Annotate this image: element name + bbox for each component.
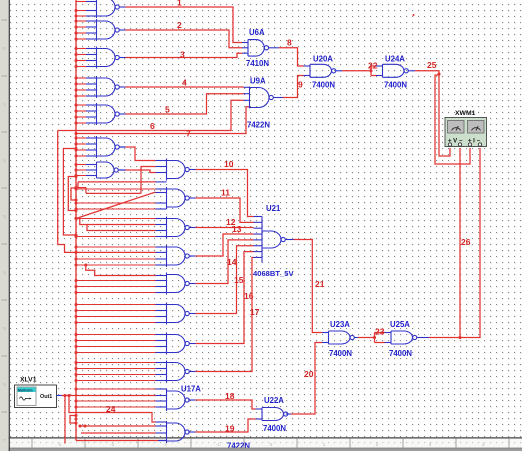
svg-text:7422N: 7422N <box>247 121 270 130</box>
wire SC11 inputs / net 24 <box>69 396 156 423</box>
node stray <box>413 14 415 16</box>
wire SC11 input hook <box>70 416 76 424</box>
svg-text:3: 3 <box>180 50 185 60</box>
bottom scrollbar strip <box>0 448 522 451</box>
svg-text:U22A: U22A <box>264 396 284 405</box>
nand gate G2 <box>97 21 116 39</box>
junction net 23 <box>373 336 376 339</box>
svg-text:3: 3 <box>429 442 432 447</box>
svg-text:11: 11 <box>221 188 230 198</box>
svg-text:13: 13 <box>232 224 242 234</box>
nand gate U22A (7400N) <box>262 408 283 421</box>
nand gate SC8 <box>167 363 186 381</box>
nand gate G3 <box>97 49 116 67</box>
wire net 2 <box>119 29 125 31</box>
wire net 22 <box>336 70 342 72</box>
wire net 20 <box>286 413 291 415</box>
wire G1 inputs <box>76 1 86 3</box>
svg-text:2: 2 <box>3 158 6 163</box>
svg-text:U6A: U6A <box>249 28 265 37</box>
wire net 5 <box>119 113 125 115</box>
junction net 26 <box>458 336 461 339</box>
wire feedback bracket B4 <box>71 188 76 200</box>
wire SC4 inputs <box>76 246 156 248</box>
svg-text:U9A: U9A <box>250 77 266 86</box>
svg-text:7: 7 <box>186 129 191 139</box>
svg-text:1: 1 <box>177 0 182 8</box>
svg-text:22: 22 <box>368 61 378 71</box>
wire G2 inputs <box>76 20 86 22</box>
svg-text:Out1: Out1 <box>40 394 52 400</box>
junction net 25 <box>437 72 440 75</box>
left ruler strip <box>0 0 9 451</box>
wire net 21 <box>285 239 293 241</box>
wire net 4 <box>119 86 125 88</box>
instrument XLV1 <box>15 385 57 408</box>
wire U23A input stubs <box>322 342 329 344</box>
svg-text:4: 4 <box>182 78 187 88</box>
wire net 3 <box>119 57 125 59</box>
wire down-stub at x=65 <box>64 396 66 444</box>
horizontal ruler <box>10 438 522 448</box>
nand gate SC4 <box>167 247 186 265</box>
nand gate U6A (7410N) <box>248 40 264 57</box>
wire net 23 <box>354 337 358 339</box>
wire U6A input stubs <box>242 42 248 44</box>
svg-text:U23A: U23A <box>330 320 350 329</box>
wire XLV1 output <box>57 395 63 397</box>
nand gate U23A (7400N) <box>329 331 351 344</box>
svg-text:1: 1 <box>323 442 326 447</box>
wire net 8 <box>269 47 279 49</box>
svg-text:XLV1: XLV1 <box>20 377 37 384</box>
svg-text:4068BT_5V: 4068BT_5V <box>253 269 294 278</box>
wire input bus <box>75 0 77 441</box>
wire net 7 <box>76 107 250 134</box>
svg-text:U20A: U20A <box>313 55 333 64</box>
wire SC7 inputs <box>76 334 156 336</box>
svg-text:8: 8 <box>287 38 292 48</box>
nand gate G5 <box>97 105 116 123</box>
svg-text:-4: -4 <box>57 442 62 447</box>
wire staircase S1 <box>77 182 79 188</box>
svg-text:7410N: 7410N <box>246 59 269 68</box>
wire net 15 <box>189 313 195 315</box>
svg-text:U24A: U24A <box>385 55 405 64</box>
wire net 6 <box>58 100 244 130</box>
wire feedback bracket B3 <box>68 177 76 211</box>
nand gate G4 <box>97 78 116 96</box>
instrument XWM1 wattmeter <box>445 118 487 147</box>
wire G6 inputs <box>76 137 86 139</box>
wire net 18 <box>188 399 195 401</box>
nand gate U9A (7422N) <box>250 88 270 108</box>
nand gate U24A (7400N) <box>383 64 405 77</box>
svg-text:U17A: U17A <box>181 385 201 394</box>
wire net 10 <box>189 169 195 171</box>
wire feedback bracket B2 <box>63 149 76 236</box>
svg-text:26: 26 <box>461 237 471 247</box>
svg-text:7400N: 7400N <box>312 81 335 90</box>
wire G4 inputs <box>76 77 86 79</box>
svg-text:7: 7 <box>3 438 6 443</box>
wire net 12 <box>189 227 195 229</box>
svg-text:23: 23 <box>375 327 385 337</box>
wire SC6 inputs <box>76 304 156 306</box>
wire net 19 <box>188 431 195 433</box>
svg-text:9: 9 <box>298 80 303 90</box>
wire bus tail into bottom gate <box>76 440 158 442</box>
svg-text:0: 0 <box>270 442 273 447</box>
wire G3 inputs <box>76 48 86 50</box>
wire net 14 <box>189 283 195 285</box>
wire net 25 <box>408 70 415 72</box>
nand gate SC2 <box>167 189 186 207</box>
svg-text:21: 21 <box>315 279 325 289</box>
svg-text:2: 2 <box>177 20 182 30</box>
svg-text:15: 15 <box>234 275 244 285</box>
svg-text:19: 19 <box>225 424 235 434</box>
wire net 26 <box>417 337 429 339</box>
nand gate SC3 <box>167 219 186 237</box>
svg-text:7400N: 7400N <box>389 349 412 358</box>
wire SC5 inputs <box>86 265 156 276</box>
wire net 17 <box>189 371 195 373</box>
svg-text:14: 14 <box>227 257 237 267</box>
nand gate G7 <box>97 162 115 178</box>
svg-text:-1: -1 <box>216 442 221 447</box>
svg-text:6: 6 <box>3 382 6 387</box>
svg-text:20: 20 <box>304 369 314 379</box>
svg-text:Multisim: Multisim <box>18 388 33 392</box>
svg-text:U25A: U25A <box>390 320 410 329</box>
nand gate SC7 <box>167 335 186 353</box>
wire net 11 <box>189 197 195 199</box>
svg-text:17: 17 <box>250 307 260 317</box>
wire net 9 <box>273 97 283 99</box>
wire U21 input stubs <box>254 216 263 218</box>
svg-text:25: 25 <box>427 60 437 70</box>
wire SC3 inputs <box>76 218 156 220</box>
svg-text:1: 1 <box>3 102 6 107</box>
svg-text:U21: U21 <box>266 204 281 213</box>
svg-text:24: 24 <box>106 404 116 414</box>
svg-text:5: 5 <box>165 105 170 115</box>
nand gate SC6 <box>167 305 186 323</box>
svg-text:0: 0 <box>3 46 6 51</box>
svg-text:5: 5 <box>3 326 6 331</box>
nand gate SC5 <box>167 275 186 293</box>
svg-text:3: 3 <box>3 214 6 219</box>
wire SC2 inputs <box>76 188 156 190</box>
wire G7 inputs <box>76 164 86 166</box>
wire net 16 <box>189 343 195 345</box>
wire net 1 <box>119 6 125 8</box>
svg-text:2: 2 <box>376 442 379 447</box>
wire net 13 <box>189 255 195 257</box>
junction net 22 <box>369 69 372 72</box>
svg-text:XWM1: XWM1 <box>455 110 476 117</box>
nand gate U21 (4068BT_5V) <box>262 231 281 248</box>
svg-text:18: 18 <box>225 391 235 401</box>
svg-text:-3: -3 <box>110 442 115 447</box>
svg-text:10: 10 <box>224 159 234 169</box>
wire SC1 inputs <box>119 146 125 148</box>
nand gate SC1 <box>167 161 186 179</box>
nand gate G1 <box>97 0 116 16</box>
wire SC11 lower inputs <box>81 432 156 434</box>
nand gate G6 <box>97 138 116 156</box>
svg-text:7400N: 7400N <box>384 81 407 90</box>
svg-text:7400N: 7400N <box>263 424 286 433</box>
nand gate U25A (7400N) <box>391 331 413 344</box>
wire U17A inputs <box>76 388 156 390</box>
nand gate SC11 <box>167 423 186 441</box>
svg-text:4: 4 <box>3 270 6 275</box>
svg-text:6: 6 <box>150 121 155 131</box>
svg-text:7400N: 7400N <box>329 349 352 358</box>
nand gate U20A (7400N) <box>310 64 332 77</box>
nand gate U17A <box>167 391 186 409</box>
svg-text:4: 4 <box>482 442 485 447</box>
wire SC8 inputs <box>76 362 156 364</box>
wire G5 inputs <box>76 104 86 106</box>
